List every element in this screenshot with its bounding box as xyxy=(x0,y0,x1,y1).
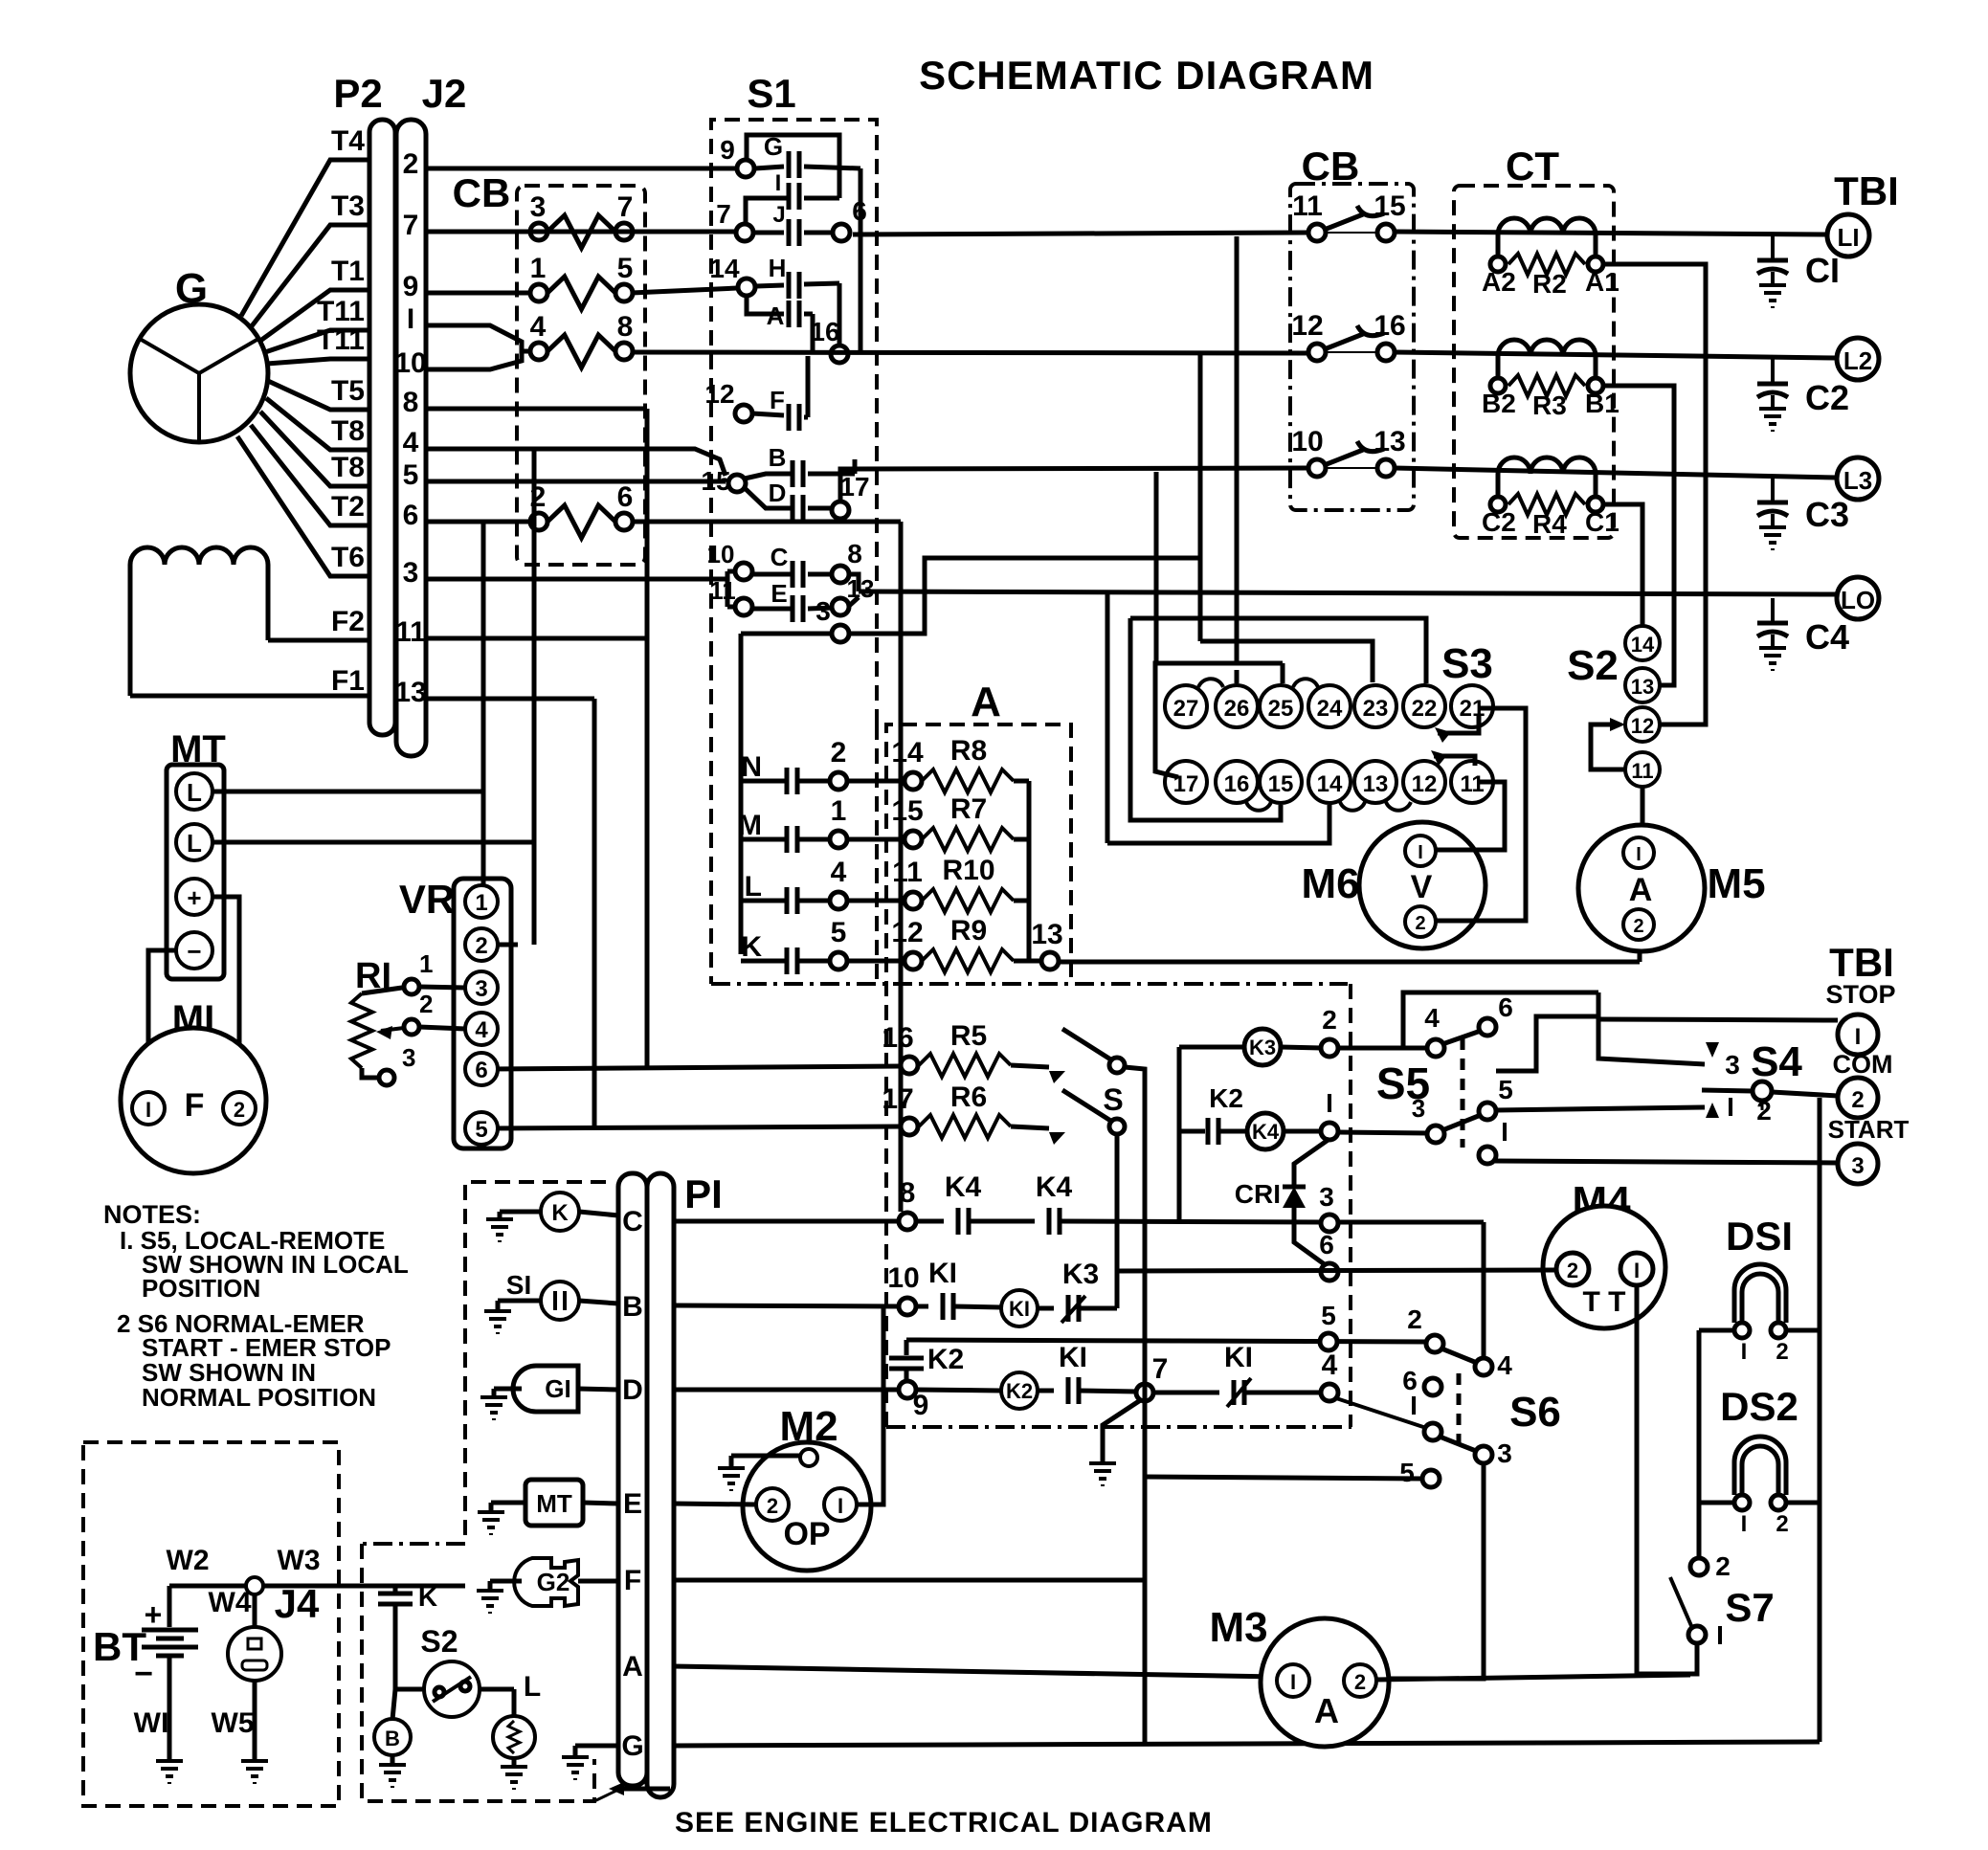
svg-text:C3: C3 xyxy=(1805,495,1849,534)
svg-text:T3: T3 xyxy=(331,190,365,222)
wire S3-11 to M6-1 xyxy=(1436,782,1505,850)
wire G to T1 xyxy=(260,290,368,341)
CB fuse 1-5 xyxy=(530,284,547,301)
svg-text:15: 15 xyxy=(891,795,923,827)
wire P1-D row xyxy=(673,1388,900,1393)
svg-text:11: 11 xyxy=(892,857,923,888)
wire MT-L2 to VR2 riser xyxy=(212,840,534,845)
S3 contact 25 xyxy=(1260,685,1302,727)
svg-text:10: 10 xyxy=(707,540,735,568)
ground at node 7 xyxy=(1103,1399,1142,1461)
S3 link arc 13-12 xyxy=(1386,802,1411,811)
svg-text:12: 12 xyxy=(891,917,923,948)
svg-text:K4: K4 xyxy=(1252,1120,1280,1144)
wire S5-2 jog to stop rail xyxy=(1496,1016,1598,1071)
phase wire row2 fuse8 through S1-16 to CB 12 xyxy=(632,352,1308,353)
wire J2-8 row xyxy=(426,407,647,412)
long riser x1196 xyxy=(1143,1269,1148,1742)
generator G xyxy=(130,304,268,442)
svg-text:K4: K4 xyxy=(1036,1171,1073,1203)
svg-text:1: 1 xyxy=(475,890,487,916)
CB contact 12-16 xyxy=(1308,344,1326,361)
svg-text:A: A xyxy=(622,1651,643,1683)
relay contact K3 circle xyxy=(1244,1029,1281,1065)
wire winding left to F1 row xyxy=(128,565,133,696)
svg-text:DS2: DS2 xyxy=(1720,1384,1798,1429)
S3 contact 13 xyxy=(1354,761,1396,803)
relay contact K1 row B xyxy=(941,1293,946,1320)
S1 contact G xyxy=(737,160,754,177)
svg-text:R5: R5 xyxy=(950,1020,987,1052)
S1 G bypass bracket xyxy=(747,135,839,198)
A box dash-dot bottom xyxy=(711,982,1348,986)
capacitor K xyxy=(393,1586,398,1592)
VR terminal 4 xyxy=(465,1013,498,1045)
S6 terminal 3 xyxy=(1475,1446,1492,1463)
svg-text:START: START xyxy=(1828,1115,1910,1144)
svg-text:−: − xyxy=(134,1656,153,1692)
svg-text:SEE ENGINE ELECTRICAL DIAGRAM: SEE ENGINE ELECTRICAL DIAGRAM xyxy=(675,1807,1213,1839)
CB fuse 3-7 xyxy=(530,223,547,240)
ground at G1 xyxy=(480,1397,507,1420)
S1 G bus vertical xyxy=(859,168,863,352)
svg-text:5: 5 xyxy=(1321,1301,1336,1330)
svg-text:A: A xyxy=(1314,1691,1339,1730)
S6 terminal 1 xyxy=(1424,1423,1441,1440)
resistor R9 xyxy=(847,959,905,964)
R1 terminal 3 xyxy=(362,1068,378,1078)
svg-text:I: I xyxy=(1855,1024,1862,1050)
svg-text:B: B xyxy=(622,1291,643,1323)
svg-text:2: 2 xyxy=(1756,1096,1772,1126)
wire J2-1/J2-10 merge to CB-4 xyxy=(426,325,522,369)
svg-text:I: I xyxy=(1290,1670,1296,1694)
svg-text:E: E xyxy=(771,579,787,608)
svg-text:10: 10 xyxy=(1291,426,1323,457)
wire H out to 16 xyxy=(838,283,842,345)
wire CR1-3 to S6 riser xyxy=(1337,1220,1484,1225)
wire VR-6 to R5-16 xyxy=(489,1066,902,1069)
svg-text:T4: T4 xyxy=(331,125,365,157)
svg-text:SI: SI xyxy=(506,1270,531,1300)
svg-text:6: 6 xyxy=(475,1058,487,1083)
svg-text:2: 2 xyxy=(403,148,419,180)
wire row2 down to F xyxy=(806,356,811,417)
S1 contact D xyxy=(791,495,795,522)
wire A-13 to M5-2 xyxy=(1059,960,1640,965)
svg-text:12: 12 xyxy=(1291,310,1323,342)
svg-text:CB: CB xyxy=(453,170,511,215)
S6 terminal 2 xyxy=(1426,1335,1443,1352)
svg-text:K: K xyxy=(551,1200,569,1226)
switch S2 engine xyxy=(424,1661,480,1717)
see engine arrow xyxy=(620,1787,670,1792)
svg-text:15: 15 xyxy=(1268,771,1294,797)
wire DS1-2 right xyxy=(1786,1328,1820,1333)
svg-text:8: 8 xyxy=(617,311,634,343)
exciter M1 xyxy=(121,1028,266,1173)
svg-text:26: 26 xyxy=(1224,696,1250,722)
svg-text:TBI: TBI xyxy=(1834,168,1899,213)
CB left dashed box xyxy=(517,186,645,565)
resistor R10 xyxy=(847,899,905,903)
S6 blade 1-3 xyxy=(1440,1437,1476,1451)
svg-text:OP: OP xyxy=(783,1516,830,1552)
terminal 9 node xyxy=(899,1381,916,1398)
wire to S6-5 xyxy=(1145,1477,1423,1479)
wire G to T3 xyxy=(251,225,368,327)
svg-text:J4: J4 xyxy=(275,1581,320,1626)
ground at M2 xyxy=(718,1468,745,1491)
svg-text:L2: L2 xyxy=(1843,346,1872,375)
svg-text:R9: R9 xyxy=(950,915,987,947)
wire S3-21 to M6-2 xyxy=(1436,708,1526,921)
svg-text:3: 3 xyxy=(475,976,487,1002)
svg-text:I: I xyxy=(1727,1092,1734,1122)
svg-text:C: C xyxy=(622,1206,643,1237)
svg-text:J: J xyxy=(772,202,785,228)
S1 contact A xyxy=(787,301,792,327)
svg-text:S: S xyxy=(1103,1082,1123,1117)
sender G1 xyxy=(513,1366,578,1412)
S2 contact 12 xyxy=(1625,707,1660,742)
svg-text:5: 5 xyxy=(831,917,847,948)
S3 link arc 16-15 xyxy=(1246,802,1271,811)
ground at K xyxy=(486,1219,513,1242)
svg-text:T11: T11 xyxy=(317,296,365,327)
sender MT xyxy=(525,1480,583,1526)
svg-text:13: 13 xyxy=(394,677,426,708)
svg-text:I: I xyxy=(1634,1259,1640,1282)
S2 contact 11 xyxy=(1625,752,1660,787)
connector P2 bar xyxy=(369,120,395,735)
svg-text:17: 17 xyxy=(839,472,869,502)
terminal L3 xyxy=(1837,457,1879,500)
svg-text:9: 9 xyxy=(913,1390,929,1421)
svg-text:F: F xyxy=(624,1565,641,1596)
svg-text:STOP: STOP xyxy=(1825,980,1895,1009)
wire S1-3 to NMLK bus xyxy=(741,632,831,636)
resistor R6 xyxy=(901,1118,918,1135)
S1 contact H xyxy=(738,279,755,296)
S3 feeder 26 riser xyxy=(1235,670,1240,683)
svg-text:S2: S2 xyxy=(420,1624,458,1659)
svg-text:R2: R2 xyxy=(1532,269,1567,299)
S3 contact 22 xyxy=(1403,685,1445,727)
CT burden resistor R4 xyxy=(1490,497,1506,512)
S1 terminal 17 xyxy=(832,502,849,519)
S2 wiper 11 to 12 xyxy=(1591,724,1624,769)
riser J2-4 to VR-2 xyxy=(532,449,537,945)
wire S5-1 to START xyxy=(1495,1161,1838,1163)
svg-text:LO: LO xyxy=(1841,586,1875,614)
wire R1-1 to VR-3 xyxy=(419,987,465,988)
svg-text:S7: S7 xyxy=(1725,1585,1774,1630)
wire J2-11 row F2 xyxy=(426,636,647,641)
hour meter M4 xyxy=(1543,1206,1665,1328)
riser row3 to S3 f3 xyxy=(1154,472,1159,663)
A dashed box xyxy=(886,724,1071,1427)
svg-text:14: 14 xyxy=(891,737,924,769)
svg-text:L: L xyxy=(187,778,202,807)
svg-text:+: + xyxy=(187,883,201,912)
VR terminal 6 xyxy=(465,1053,498,1085)
svg-text:4: 4 xyxy=(403,427,419,458)
S3 contact 26 xyxy=(1216,685,1258,727)
ground at P1-G xyxy=(575,1744,618,1749)
svg-text:R6: R6 xyxy=(950,1081,987,1113)
voltmeter M6 xyxy=(1359,822,1485,948)
S6 blade from 4 xyxy=(1336,1398,1426,1428)
svg-text:T8: T8 xyxy=(331,452,365,483)
svg-text:7: 7 xyxy=(617,191,634,223)
svg-text:W4: W4 xyxy=(209,1587,252,1618)
svg-text:14: 14 xyxy=(709,254,740,283)
VR terminal 2 xyxy=(465,928,498,961)
svg-text:B1: B1 xyxy=(1585,389,1619,418)
resistor R8 xyxy=(847,779,905,784)
S5 terminal 4 xyxy=(1427,1039,1444,1057)
wire G to T11 xyxy=(267,359,368,364)
svg-text:3: 3 xyxy=(1412,1094,1425,1123)
TB1 terminal 2 COM xyxy=(1838,1078,1878,1118)
resistor R5 xyxy=(901,1057,918,1074)
svg-text:16: 16 xyxy=(1374,310,1405,342)
svg-text:D: D xyxy=(622,1374,643,1406)
svg-text:E: E xyxy=(623,1488,642,1520)
wire G to T5 xyxy=(268,381,368,410)
S6 blade 2-4 xyxy=(1441,1348,1477,1363)
A terminal 13 xyxy=(1041,952,1059,970)
svg-text:S2: S2 xyxy=(1567,642,1619,689)
svg-text:6: 6 xyxy=(617,481,634,513)
svg-text:B: B xyxy=(385,1727,400,1750)
wire G to T8 xyxy=(266,398,368,450)
arrow to S blade R5 xyxy=(1049,1071,1065,1083)
indicator B xyxy=(392,1689,395,1720)
wire P1-E to M2-2 xyxy=(673,1504,756,1505)
VR terminal 3 xyxy=(465,971,498,1004)
VR terminal 5 xyxy=(465,1112,498,1145)
terminal 5 circle xyxy=(1320,1333,1337,1350)
relay contact K1 row D b xyxy=(1232,1380,1237,1405)
battery box dashed xyxy=(83,1442,339,1806)
sender G2 xyxy=(514,1558,578,1606)
S3 contact 14 xyxy=(1308,761,1351,803)
capacitor C3 xyxy=(1771,478,1775,502)
svg-text:2: 2 xyxy=(234,1098,245,1122)
TB1 terminal 3 START xyxy=(1838,1144,1878,1184)
capacitor C4 xyxy=(1771,598,1775,623)
riser J2-13 to VR5 wire xyxy=(592,699,597,1127)
svg-text:S4: S4 xyxy=(1751,1038,1802,1085)
svg-text:R10: R10 xyxy=(942,855,994,886)
svg-text:8: 8 xyxy=(403,387,419,418)
svg-text:6: 6 xyxy=(403,500,419,531)
riser row2 to S3 f2 xyxy=(1198,352,1203,641)
svg-text:5: 5 xyxy=(1399,1458,1415,1487)
svg-text:T8: T8 xyxy=(331,415,365,447)
wire G2 to P1-F xyxy=(578,1579,618,1584)
svg-text:R3: R3 xyxy=(1532,390,1567,420)
S5 blade 4-6 xyxy=(1442,1031,1481,1044)
wire MT-minus to M1-1 xyxy=(148,950,176,1094)
svg-text:DSI: DSI xyxy=(1726,1214,1793,1259)
svg-text:C2: C2 xyxy=(1805,378,1849,417)
S1 contact I xyxy=(787,183,792,210)
svg-text:2: 2 xyxy=(831,737,847,769)
svg-text:3: 3 xyxy=(403,557,419,589)
wire 14 down to A xyxy=(747,297,784,314)
wire J2-3 to S1 10/11 xyxy=(426,577,727,582)
wire R6 pivot down to K3 contact xyxy=(1115,1134,1120,1308)
S6 terminal 6 xyxy=(1424,1378,1441,1395)
svg-text:K: K xyxy=(741,931,762,963)
S3 contact 23 xyxy=(1354,685,1396,727)
svg-text:2: 2 xyxy=(1851,1087,1864,1113)
svg-text:17: 17 xyxy=(882,1083,913,1115)
CB fuse 4-8 xyxy=(530,343,547,360)
svg-text:LI: LI xyxy=(1837,223,1859,252)
svg-text:3: 3 xyxy=(1725,1050,1740,1080)
CT winding R4 xyxy=(1498,457,1596,474)
wire J2-4 to S1 loop xyxy=(426,449,726,476)
S5 terminal 3 xyxy=(1427,1126,1444,1143)
svg-text:W3: W3 xyxy=(278,1545,321,1576)
svg-text:2: 2 xyxy=(1407,1304,1422,1334)
S5 blade 3-5 xyxy=(1442,1115,1481,1130)
svg-text:F2: F2 xyxy=(331,606,365,637)
svg-text:13: 13 xyxy=(1374,426,1405,457)
relay contact K4 a xyxy=(956,1208,961,1235)
S3 contact 17 xyxy=(1165,761,1207,803)
svg-text:V: V xyxy=(1411,869,1433,905)
wire J2-7 to CB-3 xyxy=(426,230,531,234)
wire R1-2 to VR-4 xyxy=(419,1027,465,1029)
svg-text:F1: F1 xyxy=(331,665,365,697)
svg-text:I: I xyxy=(1326,1088,1333,1118)
ammeter M3 xyxy=(1261,1618,1389,1747)
S1 terminal 11 xyxy=(735,598,752,615)
svg-text:1: 1 xyxy=(530,253,547,284)
svg-text:KI: KI xyxy=(928,1258,957,1289)
wire P1-B row xyxy=(673,1305,900,1306)
wire S6-3 to M3-2 xyxy=(1375,1462,1484,1679)
svg-text:K2: K2 xyxy=(1209,1083,1243,1113)
svg-text:I: I xyxy=(1716,1620,1724,1650)
svg-text:L: L xyxy=(187,829,202,858)
svg-text:H: H xyxy=(769,254,787,282)
S3 contact 24 xyxy=(1308,685,1351,727)
sender K xyxy=(541,1192,579,1231)
wire fuse7 to S1-7 xyxy=(426,230,708,234)
terminal 8 row C xyxy=(899,1213,916,1230)
A box dash-dot boundary lower xyxy=(886,1425,1351,1429)
svg-text:16: 16 xyxy=(810,317,839,346)
svg-text:R4: R4 xyxy=(1532,509,1567,539)
svg-text:W2: W2 xyxy=(167,1545,210,1576)
svg-text:T1: T1 xyxy=(331,256,365,287)
svg-text:9: 9 xyxy=(403,271,419,302)
svg-text:K4: K4 xyxy=(945,1171,982,1203)
svg-text:B2: B2 xyxy=(1482,389,1516,418)
svg-text:2: 2 xyxy=(1322,1005,1337,1035)
svg-text:1: 1 xyxy=(419,949,433,978)
wire DS leads to S7-2 xyxy=(1697,1330,1702,1559)
svg-text:I: I xyxy=(1410,1391,1418,1420)
svg-text:CB: CB xyxy=(1302,144,1360,189)
svg-text:+: + xyxy=(145,1597,163,1632)
S3 contact 11 xyxy=(1451,761,1493,803)
wire M4-1 down to S7 xyxy=(1637,1285,1690,1674)
svg-text:CT: CT xyxy=(1506,144,1559,189)
svg-text:16: 16 xyxy=(1224,771,1250,797)
S3 link arc 14-13 xyxy=(1340,802,1365,811)
S1 terminal 10 xyxy=(735,563,752,580)
svg-text:12: 12 xyxy=(1412,771,1438,797)
S3 feeder f1 to 22 and 15 xyxy=(1130,618,1426,683)
lamp DS2 xyxy=(1742,1446,1778,1495)
wire A out xyxy=(804,312,813,317)
svg-text:I: I xyxy=(1741,1339,1748,1365)
svg-text:K2: K2 xyxy=(1006,1379,1033,1403)
svg-text:TBI: TBI xyxy=(1829,940,1894,985)
S3 link arc 27-26 xyxy=(1198,679,1223,687)
wire G to T8 xyxy=(260,412,368,486)
wire S5 2-4 xyxy=(1337,1046,1428,1051)
svg-text:KI: KI xyxy=(1224,1342,1253,1373)
svg-text:4: 4 xyxy=(530,311,547,343)
svg-text:4: 4 xyxy=(1424,1003,1440,1033)
wire fuse6 right to riser xyxy=(632,520,901,524)
R1 wiper arm xyxy=(381,1027,412,1031)
switch S4 xyxy=(1753,1081,1772,1101)
svg-text:3: 3 xyxy=(530,191,547,223)
S6 mechanical link xyxy=(1457,1373,1462,1449)
wire J2-6 to CB-2 xyxy=(426,520,531,524)
wire M2-1 riser to B row xyxy=(857,1306,883,1505)
svg-text:W5: W5 xyxy=(212,1707,255,1739)
wire fuse5 to S1-14 xyxy=(632,288,737,293)
svg-text:S3: S3 xyxy=(1441,640,1493,687)
diode CR1 xyxy=(1294,1139,1329,1185)
svg-text:WI: WI xyxy=(134,1707,169,1739)
svg-text:MT: MT xyxy=(536,1489,572,1518)
svg-text:10: 10 xyxy=(887,1262,919,1294)
svg-text:NORMAL POSITION: NORMAL POSITION xyxy=(142,1383,376,1412)
S3 contact 21 xyxy=(1451,685,1493,727)
phase wire row2 CB16 to L2 xyxy=(1395,352,1837,358)
wire DS2-2 right xyxy=(1786,1501,1820,1505)
relay coil K1 xyxy=(1001,1290,1038,1326)
connector J4 symbol xyxy=(253,1594,257,1627)
svg-text:GI: GI xyxy=(545,1374,570,1403)
wire J2-13 row F1 xyxy=(426,697,594,702)
svg-text:CI: CI xyxy=(1805,251,1840,290)
svg-text:K3: K3 xyxy=(1062,1259,1099,1290)
svg-text:6: 6 xyxy=(852,196,867,226)
S1 terminal 15 xyxy=(728,475,746,492)
svg-text:M3: M3 xyxy=(1209,1604,1267,1651)
CB contact 10-13 xyxy=(1308,459,1326,477)
CT winding R3 xyxy=(1498,340,1596,356)
svg-text:2: 2 xyxy=(1633,916,1643,937)
switch S7 xyxy=(1690,1558,1708,1575)
svg-text:T2: T2 xyxy=(331,491,365,523)
wire K4 to CR1-3 xyxy=(1060,1221,1322,1222)
MT block xyxy=(167,765,224,979)
svg-text:14: 14 xyxy=(1317,771,1343,797)
